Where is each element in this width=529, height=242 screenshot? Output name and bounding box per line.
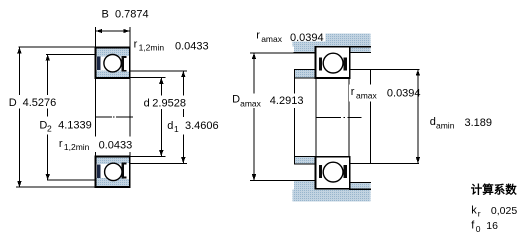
housing step bottom-right lines <box>349 181 371 183</box>
label r amax 0.0394 (right) <box>349 85 421 102</box>
svg-text:r: r <box>59 138 63 150</box>
svg-text:r: r <box>351 86 355 98</box>
damin arrow top <box>416 70 420 76</box>
D extension line bottom <box>16 186 96 188</box>
label Damax 4.2913 <box>230 93 305 108</box>
d extension line top <box>130 77 166 79</box>
svg-text:4.1339: 4.1339 <box>58 119 92 131</box>
svg-text:r: r <box>134 38 138 50</box>
right bearing bottom section <box>316 157 350 189</box>
face groove bar left (top) <box>319 57 322 70</box>
bore silhouette lines (right drawing) <box>315 78 317 157</box>
B extension line left <box>95 27 97 48</box>
seal RS1 (top, dark) <box>97 56 101 70</box>
shaft surface top <box>294 77 315 79</box>
shaft shoulder bottom edge <box>294 163 315 165</box>
bearing outer+inner ring top section (blue) <box>96 48 130 79</box>
svg-text:0.0394: 0.0394 <box>387 87 421 99</box>
ball (bottom) <box>105 163 122 180</box>
D2 extension line top <box>46 53 96 55</box>
D dimension line <box>18 47 20 187</box>
face groove bar right (bottom) <box>344 165 348 178</box>
d1 extension line bottom <box>130 162 187 164</box>
D arrow top <box>17 47 21 53</box>
D2 extension line bottom <box>47 179 96 181</box>
da extension line bottom <box>350 162 420 164</box>
svg-text:d: d <box>430 116 436 128</box>
d arrow top <box>159 78 163 84</box>
housing shoulder block top-right (blue) <box>350 47 371 53</box>
D extension line top <box>19 46 96 48</box>
bore silhouette line right <box>129 78 131 157</box>
d dimension line <box>160 78 162 156</box>
svg-text:1: 1 <box>174 124 179 134</box>
svg-text:1,2min: 1,2min <box>64 142 90 152</box>
Da arrow bottom <box>252 174 256 180</box>
svg-text:B 0.7874: B 0.7874 <box>102 9 149 21</box>
shaft shoulder band top (blue) <box>294 70 315 79</box>
ball (top) <box>104 55 121 72</box>
svg-text:0.0433: 0.0433 <box>99 139 133 151</box>
svg-text:3.4606: 3.4606 <box>185 120 219 132</box>
recess notch right (top section) <box>124 56 130 72</box>
housing step top-right lines <box>349 46 371 48</box>
ball (bottom) <box>323 162 343 182</box>
seal cavity white (bottom section) <box>97 164 130 178</box>
svg-text:r: r <box>478 209 481 219</box>
housing shoulder top-left bottom edge <box>294 52 316 54</box>
svg-text:d: d <box>167 120 173 132</box>
label r amax 0.0394 (top left) <box>254 30 326 44</box>
Da dimension line <box>253 53 255 180</box>
recess notch right (bottom section) <box>124 163 130 179</box>
face groove bar right (top) <box>344 57 348 70</box>
groove caps (top right) <box>122 56 127 58</box>
shield groove bar (top right) <box>122 57 124 72</box>
shield groove bar (bottom right) <box>122 163 124 178</box>
svg-text:D: D <box>9 97 17 109</box>
label D 4.5276 <box>7 95 57 109</box>
svg-text:0.0433: 0.0433 <box>175 41 209 53</box>
d1 dimension line <box>182 71 184 163</box>
da extension line top <box>349 69 419 71</box>
D2 arrow bottom <box>46 174 50 180</box>
label D2 4.1339 <box>37 117 93 135</box>
housing shoulder block bottom-right (blue) <box>350 182 371 189</box>
svg-text:k: k <box>471 205 477 217</box>
centerline (left drawing) <box>96 116 112 118</box>
shaft shoulder top edge <box>294 69 315 71</box>
bearing bottom section (blue) <box>96 157 130 188</box>
housing band top (blue) <box>293 34 371 47</box>
svg-text:0.0394: 0.0394 <box>290 32 324 44</box>
Da extension line top <box>250 52 294 54</box>
seal cavity white (top section) <box>97 57 130 71</box>
housing band bottom (blue) <box>293 189 371 201</box>
svg-text:0: 0 <box>476 224 481 234</box>
svg-text:amax: amax <box>240 98 262 108</box>
svg-text:D: D <box>232 93 240 105</box>
svg-text:计算系数: 计算系数 <box>471 182 517 196</box>
top section border <box>96 48 130 79</box>
bore silhouette line left <box>95 78 97 157</box>
d1 arrow top <box>181 71 185 77</box>
face groove bar left (bottom) <box>319 165 322 178</box>
damin dimension line <box>417 70 419 163</box>
groove caps (bottom right) <box>122 163 127 165</box>
d1 extension line top <box>130 70 187 72</box>
label d1 3.4606 <box>165 117 221 135</box>
svg-text:r: r <box>256 30 260 42</box>
right bearing top section <box>316 47 350 78</box>
housing shoulder block bottom-left (blue) <box>294 181 316 189</box>
d arrow bottom <box>159 150 163 156</box>
label damin 3.189 <box>430 116 492 131</box>
svg-text:3.189: 3.189 <box>465 117 493 129</box>
B arrow right <box>124 29 130 33</box>
label r1,2min 0.0433 (top) <box>133 38 210 54</box>
d extension line bottom <box>130 155 166 157</box>
shaft shoulder band bottom (blue) <box>294 157 315 164</box>
housing shoulder bottom-left top edge <box>294 179 316 181</box>
housing face projection line <box>369 70 371 164</box>
label f0 16 <box>471 220 498 234</box>
label r1,2min 0.0433 (bottom) <box>57 137 133 153</box>
Da arrow top <box>252 53 256 59</box>
damin arrow bottom <box>416 157 420 163</box>
ball (top) <box>323 53 343 73</box>
bottom section border <box>96 157 130 188</box>
B extension line right <box>129 27 131 51</box>
label d 2.9528 <box>142 96 191 110</box>
svg-text:16: 16 <box>486 220 498 232</box>
svg-text:d: d <box>144 98 150 110</box>
centerline (right drawing) <box>316 117 341 119</box>
svg-text:1,2min: 1,2min <box>139 42 165 52</box>
svg-text:2: 2 <box>47 123 52 133</box>
Da extension line bottom <box>250 179 294 181</box>
shaft shoulder face line <box>293 69 295 165</box>
B dimension line <box>96 30 130 32</box>
D2 arrow top <box>46 54 50 60</box>
D arrow bottom <box>17 181 21 187</box>
svg-text:amax: amax <box>356 91 378 101</box>
label kr 0,025 <box>471 205 517 219</box>
housing shoulder block top-left (blue) <box>294 47 316 53</box>
D2 dimension line <box>47 55 49 181</box>
B arrow left <box>96 29 102 33</box>
svg-text:amin: amin <box>436 120 455 130</box>
svg-text:4.2913: 4.2913 <box>270 95 304 107</box>
svg-text:0,025: 0,025 <box>491 205 517 217</box>
shaft surface bottom <box>294 156 315 158</box>
svg-text:2.9528: 2.9528 <box>152 98 186 110</box>
d1 arrow bottom <box>181 157 185 163</box>
seal RS1 (bottom, dark) <box>97 165 101 179</box>
svg-text:amax: amax <box>261 34 283 44</box>
svg-text:4.5276: 4.5276 <box>23 97 57 109</box>
